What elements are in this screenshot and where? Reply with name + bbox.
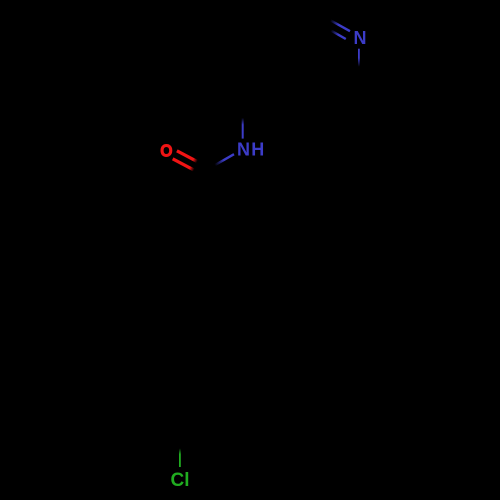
wire: bond C=O upper line: [177, 151, 208, 167]
wire: bond C1=N inner double line: [309, 18, 346, 39]
svg-text:N: N: [354, 28, 367, 48]
wire: bond C=O lower line: [173, 159, 204, 175]
svg-text:Cl: Cl: [171, 470, 190, 491]
svg-text:NH: NH: [237, 140, 265, 160]
wire: bond N-C3: [358, 49, 360, 98]
svg-text:O: O: [160, 140, 172, 160]
wire: bond C1=N main line: [308, 8, 351, 32]
wire: bond NH-C carbonyl: [206, 154, 235, 170]
wire: bond C-Cl: [179, 419, 181, 467]
wire: bond C5-NH: [242, 89, 244, 139]
